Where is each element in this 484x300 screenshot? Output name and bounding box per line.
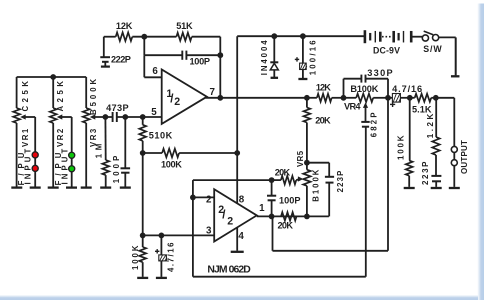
svg-text:100K: 100K [397,135,406,160]
svg-text:12K: 12K [116,21,133,31]
svg-text:2: 2 [206,195,212,206]
svg-text:INPUT: INPUT [61,148,70,184]
svg-text:DC-9V: DC-9V [373,46,400,56]
svg-text:51K: 51K [176,21,193,31]
svg-text:510K: 510K [149,130,173,140]
svg-text:VR5: VR5 [296,150,305,167]
svg-text:223P: 223P [421,161,430,185]
svg-text:682P: 682P [369,112,378,137]
svg-text:100K: 100K [131,245,140,270]
svg-text:1: 1 [259,203,265,214]
svg-text:20K: 20K [275,168,291,178]
svg-text:4: 4 [238,231,244,242]
svg-text:2: 2 [174,96,180,108]
svg-text:IN4004: IN4004 [260,40,269,76]
svg-text:B500K: B500K [89,78,98,115]
svg-text:100P: 100P [279,196,301,206]
svg-text:VR4: VR4 [344,102,361,112]
svg-text:INPUT: INPUT [24,148,33,184]
svg-text:B100K: B100K [311,169,320,202]
svg-text:1.2K: 1.2K [426,113,435,138]
svg-text:473P: 473P [106,103,129,113]
svg-text:OUTPUT: OUTPUT [460,140,469,175]
svg-text:100P: 100P [190,57,211,67]
svg-text:7: 7 [210,87,216,98]
svg-text:8: 8 [239,194,245,205]
svg-text:NJM 062D: NJM 062D [207,264,251,275]
svg-text:6: 6 [152,66,158,77]
svg-text:100K: 100K [161,159,183,169]
svg-text:12K: 12K [316,82,332,92]
svg-text:5.1K: 5.1K [412,104,432,114]
svg-text:20K: 20K [315,116,331,126]
svg-text:100P: 100P [112,155,121,183]
svg-text:2: 2 [227,216,233,228]
svg-text:S/W: S/W [423,44,442,54]
svg-text:B100K: B100K [350,84,379,94]
svg-text:VR1: VR1 [21,128,30,147]
svg-text:330P: 330P [367,68,393,78]
svg-text:20K: 20K [278,221,294,231]
svg-text:222P: 222P [111,55,132,65]
svg-text:1M: 1M [95,143,104,158]
svg-text:4.7/16: 4.7/16 [392,84,423,94]
svg-text:223P: 223P [336,170,345,192]
svg-text:4.7/16: 4.7/16 [167,242,176,272]
svg-text:VR2: VR2 [56,128,65,147]
